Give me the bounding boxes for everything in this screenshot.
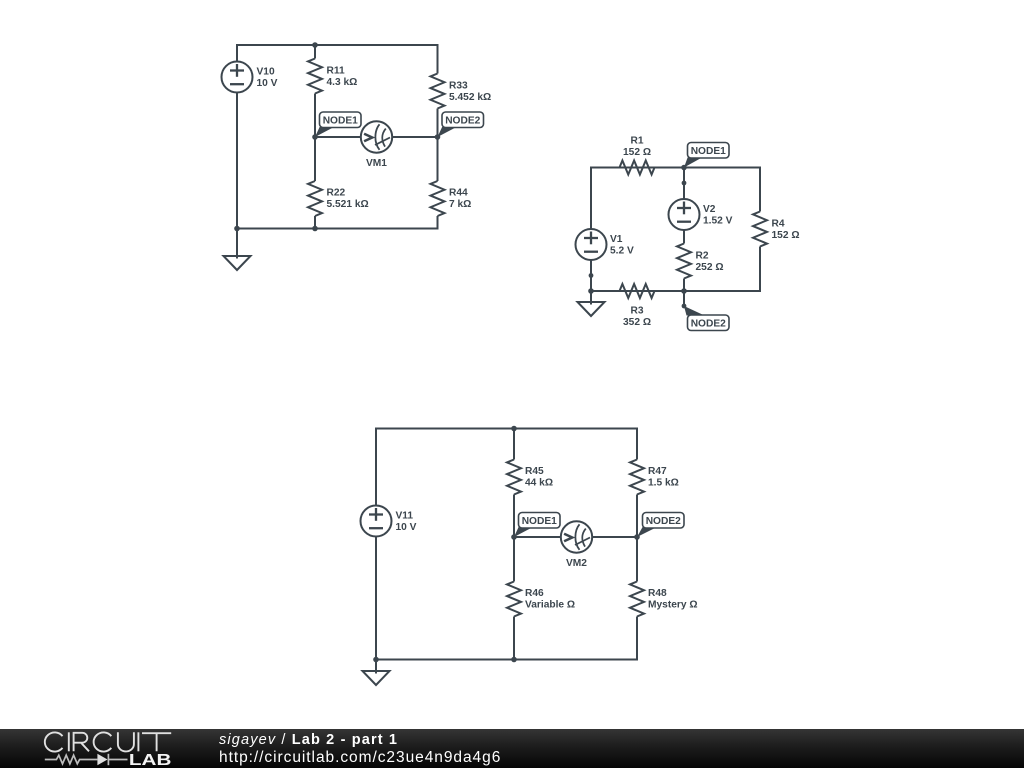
ground (circuit 3) [363,671,390,685]
junction: NODE1 stub on V2 wire [682,181,687,186]
svg-text:10 V: 10 V [257,78,278,89]
resistor R33 5.452 k&#937; [431,74,492,109]
svg-text:R1: R1 [630,136,643,147]
wire: circuit3 ground lead [375,660,377,674]
svg-text:10 V: 10 V [396,522,417,533]
wire: circuit2 NODE2 stub [683,291,685,306]
wire: circuit1 left branch lower (V10 to bottom rail) [236,92,238,229]
wire: circuit1 ground lead [236,229,238,259]
svg-text:VM2: VM2 [566,558,587,569]
resistor R11 4.3 k&#937; [308,59,357,94]
svg-text:NODE2: NODE2 [691,319,726,330]
junction: c1 top rail / R11 [312,42,318,48]
svg-text:NODE1: NODE1 [522,516,557,527]
logo resistor + diode squiggle [45,754,128,765]
svg-text:R48: R48 [648,588,667,599]
junction: c3 top rail / R45 [511,426,517,432]
node NODE1 (circuit 1) [312,112,361,140]
resistor R45 44 k&#937; [507,460,553,495]
wire: circuit1 right branch R44 upper lead [437,137,439,181]
resistor R46 Variable &#937; [507,582,575,617]
ground (circuit 2) [578,302,605,316]
voltage source V10 10 V [222,62,278,93]
resistor R22 5.521 k&#937; [308,181,369,216]
svg-text:44 kΩ: 44 kΩ [525,478,553,489]
svg-text:4.3 kΩ: 4.3 kΩ [327,77,358,88]
svg-text:V10: V10 [257,67,275,78]
node NODE2 (circuit 2) [681,288,729,330]
junction: V1 bottom terminal [589,273,594,278]
wire: circuit2 middle branch V2 to R2 [683,230,685,244]
resistor R48 Mystery &#937; [630,582,698,617]
svg-text:7 kΩ: 7 kΩ [449,199,471,210]
svg-text:152 Ω: 152 Ω [623,147,651,158]
svg-text:1.52 V: 1.52 V [703,216,733,227]
svg-text:LAB: LAB [129,752,172,768]
svg-text:V11: V11 [396,511,414,522]
resistor R44 7 k&#937; [431,181,472,216]
wire: circuit3 right branch R48 upper lead [636,537,638,582]
junction: c1 bottom rail / R22 [312,226,318,232]
wire: circuit3 middle branch R45 leads [513,429,515,460]
svg-text:R45: R45 [525,466,544,477]
wire: circuit2 top rail with corners [591,168,760,230]
wire: circuit2 middle branch NODE1 stub to V2 [683,168,685,200]
resistor R47 1.5 k&#937; [630,460,679,495]
resistor R4 152 &#937; [753,212,800,247]
wire: circuit1 top rail with corners [237,45,438,74]
voltage source V11 10 V [361,506,417,537]
wire: circuit1 bottom rail with right corner [237,216,438,229]
junction: c3 bottom rail / R46 [511,657,517,663]
voltage source V2 1.52 V [669,199,733,230]
svg-text:R44: R44 [449,188,468,199]
wire: circuit3 left branch V11 to bottom [375,537,377,660]
wire: circuit2 bottom rail with right corner [591,247,760,292]
svg-text:V2: V2 [703,204,716,215]
wire: circuit3 top rail with corners [376,429,637,507]
resistor R3 352 &#937; [620,284,655,328]
voltmeter VM2 [561,521,592,569]
wire: VM1 horizontal wire NODE1 to NODE2 [315,136,362,138]
node NODE1 (circuit 2) [681,143,729,171]
wire: circuit3 middle branch R46 leads [513,537,515,582]
footer url text [219,749,501,767]
svg-text:NODE1: NODE1 [323,116,358,127]
svg-text:1.5 kΩ: 1.5 kΩ [648,478,679,489]
svg-text:5.452 kΩ: 5.452 kΩ [449,92,491,103]
svg-text:NODE2: NODE2 [646,516,681,527]
wire: circuit3 bottom rail with right corner [376,617,637,660]
svg-text:R46: R46 [525,588,544,599]
node NODE1 (circuit 3) [511,513,560,540]
junction: c3 bottom rail / ground [373,657,379,663]
svg-text:R2: R2 [696,251,709,262]
wire: circuit1 middle branch R11 leads [314,45,316,59]
svg-text:R22: R22 [327,188,346,199]
node NODE2 (circuit 1) [435,112,484,140]
svg-text:Mystery Ω: Mystery Ω [648,600,698,611]
voltage source V1 5.2 V [576,229,634,260]
svg-text:NODE2: NODE2 [445,116,480,127]
svg-text:R47: R47 [648,466,667,477]
wire: circuit2 ground lead [590,291,592,305]
svg-text:NODE1: NODE1 [691,146,726,157]
node NODE2 (circuit 3) [634,513,684,540]
junction: NODE2 stub end [682,304,687,309]
wire: circuit3 right branch R47 lower lead [636,495,638,538]
junction: c1 bottom rail / ground [234,226,240,232]
svg-text:VM1: VM1 [366,158,387,169]
footer title text [219,732,398,748]
voltmeter VM1 [361,121,392,169]
CircuitLab logo [0,728,220,768]
svg-text:R4: R4 [772,219,785,230]
svg-text:152 Ω: 152 Ω [772,230,800,241]
wire: VM2 horizontal wire [514,536,562,538]
svg-text:R11: R11 [327,66,345,77]
svg-text:5.521 kΩ: 5.521 kΩ [327,199,369,210]
wire: circuit1 middle branch R22 leads [314,137,316,181]
wire: circuit2 middle branch R2 to bottom [683,279,685,292]
wire: circuit1 right branch R33 lower lead [437,109,439,138]
resistor R2 252 &#937; [677,244,724,279]
svg-text:R3: R3 [630,306,643,317]
svg-text:252 Ω: 252 Ω [696,262,724,273]
svg-text:352 Ω: 352 Ω [623,317,651,328]
wire: circuit2 left branch V1 to bottom [590,260,592,292]
svg-text:V1: V1 [610,234,623,245]
logo wordmark CIRCUIT (thin geometric letters) [45,732,171,751]
footer bar [0,729,1024,768]
ground (circuit 1) [224,256,251,270]
resistor R1 152 &#937; [620,136,655,175]
svg-text:Variable Ω: Variable Ω [525,600,575,611]
svg-text:R33: R33 [449,81,468,92]
svg-text:5.2 V: 5.2 V [610,246,634,257]
junction: c2 bottom-left / ground [588,288,594,294]
